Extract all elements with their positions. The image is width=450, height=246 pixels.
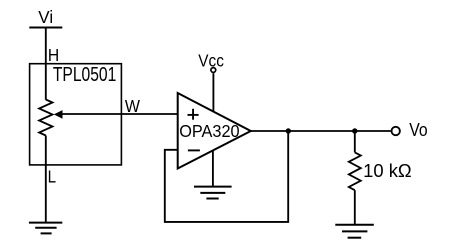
svg-text:Vo: Vo: [409, 120, 427, 140]
op-amp + input symbol: [188, 109, 199, 120]
digital potentiometer TPL0501 box: [30, 64, 122, 165]
wire op-amp output to Vo: [251, 130, 391, 132]
svg-text:Vcc: Vcc: [198, 50, 224, 70]
op-amp U1 OPA320: [178, 93, 251, 169]
ground (below L): [29, 223, 62, 234]
svg-text:Vi: Vi: [38, 7, 53, 27]
svg-text:L: L: [48, 167, 57, 187]
junction (feedback tap): [286, 128, 291, 133]
op-amp − input symbol: [188, 149, 200, 151]
power Vcc: [198, 50, 224, 111]
node Vo: [392, 120, 428, 140]
junction (resistor tap): [352, 128, 357, 133]
wire junction to resistor: [354, 131, 356, 152]
potentiometer element: [39, 100, 52, 136]
wiper arrow: [54, 110, 63, 119]
svg-text:H: H: [48, 45, 59, 65]
svg-text:10 kΩ: 10 kΩ: [363, 161, 412, 181]
wire wiper W to op-amp + input: [61, 113, 178, 115]
ground (op-amp): [194, 187, 232, 199]
ground (below resistor): [335, 225, 374, 238]
resistor 10 kΩ: [349, 152, 361, 190]
svg-text:W: W: [125, 96, 141, 116]
wire resistor to ground: [354, 190, 356, 225]
wire op-amp ground stem: [212, 150, 214, 186]
node Vi: [29, 7, 62, 28]
wire feedback loop to − input: [165, 131, 288, 222]
svg-text:TPL0501: TPL0501: [53, 64, 116, 86]
wire L terminal to ground: [45, 136, 47, 223]
svg-text:OPA320: OPA320: [179, 121, 240, 141]
wire Vi to H terminal: [45, 28, 47, 100]
